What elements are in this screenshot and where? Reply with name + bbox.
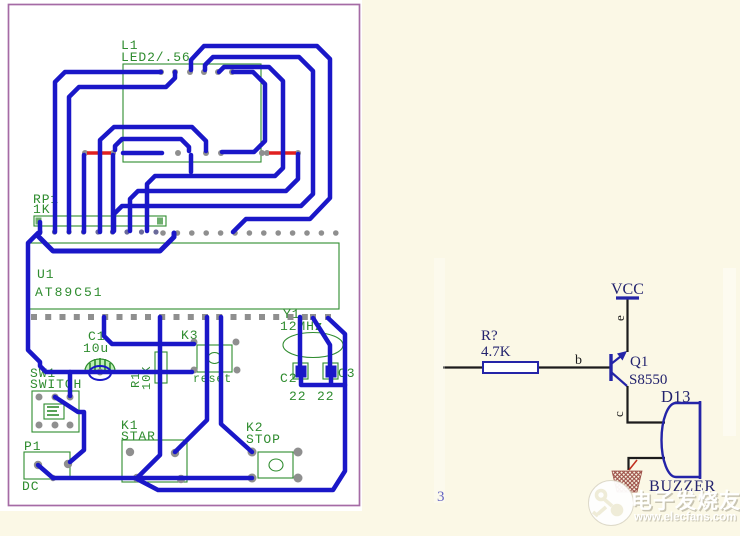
svg-text:c: c [611,411,626,417]
svg-text:STAR: STAR [121,429,156,444]
svg-text:电子发烧友: 电子发烧友 [631,489,740,513]
svg-text:STOP: STOP [246,432,281,447]
wire SW1 feed [68,372,73,396]
svg-text:www.elecfans.com: www.elecfans.com [633,512,736,524]
ground symbol (hatched earth) [612,460,642,492]
svg-text:AT89C51: AT89C51 [35,285,104,300]
jumper W2 [269,151,296,154]
svg-text:22: 22 [317,389,334,404]
svg-text:e: e [612,315,627,321]
svg-text:DC: DC [22,479,39,494]
pads SW1 [36,394,43,401]
wire U1 pin1 bus [38,233,174,251]
svg-text:U1: U1 [37,267,54,282]
svg-text:LED2/.56: LED2/.56 [121,50,191,65]
switch SW1 outline [32,391,79,432]
wire stub from pad [189,155,194,172]
wire LED pad stub [123,151,162,156]
buzzer D13 body [662,403,701,477]
svg-text:Q1: Q1 [630,354,648,370]
capacitor pads C2 C3 (blue squares) [296,366,337,378]
wire left long run to SW1 area [28,233,192,372]
svg-text:22: 22 [289,389,306,404]
wire fork right to K2 [221,317,252,452]
svg-text:b: b [575,353,582,368]
wire base net [443,366,610,368]
board edge (purple frame) [9,5,360,506]
wire collector down [628,386,666,423]
U1/RP1 top pad row [37,229,338,235]
wire small bridge [115,139,189,151]
wire bridge-left to RP1 [100,127,206,232]
svg-text:P1: P1 [24,439,41,454]
wire fork left to K1 [175,317,207,452]
LED display L1 outline [123,64,261,162]
red jumper wires [87,151,296,154]
faint band [723,268,736,436]
wire bottom bus P1-K2 [53,476,252,481]
copper traces [28,46,345,490]
pads K3 [191,339,198,346]
pad C1 [97,369,104,376]
wire C1 to K3 [104,317,194,344]
svg-text:reset: reset [193,373,232,386]
connector P1 outline [24,452,70,479]
capacitor C1 lower ellipse [89,366,111,380]
pads [31,69,339,483]
wire R1 vertical to K1 [137,317,160,478]
transistor Q1 body [609,354,612,381]
wire U1 pad to bottom-right bus [137,318,345,490]
U1 bottom pad row [31,314,331,320]
LED top pad row [158,69,235,75]
power VCC bar [616,296,639,299]
wire LED right mini loop [222,72,265,152]
pads P1 [34,461,42,469]
PCB white background [0,0,362,511]
wire RP1 pin1 stub [38,222,43,233]
svg-text:1K: 1K [33,202,50,217]
svg-text:VCC: VCC [611,281,644,298]
pads K2 [248,448,257,457]
resistor R1 outline [155,352,167,383]
push-button K3 outline [197,345,232,372]
silscreen text [22,38,355,494]
wire loop1 outer to K1 [191,46,330,232]
svg-text:S8550: S8550 [629,372,667,388]
wire loop3 to RP1 via fan [147,67,283,231]
wire C2-C3 link [301,374,345,385]
capacitor C1 body [85,358,115,371]
key K1 outline [122,440,187,482]
wire P1 diag [38,465,53,478]
svg-text:R?: R? [481,328,498,344]
wire buzzer bottom terminal [629,458,666,470]
svg-text:10K: 10K [140,366,154,390]
wire jumper2 pad to RP1 [111,155,116,232]
capacitor C3 outline [323,363,338,379]
wire second-left to LED pad2 [69,72,175,232]
wire top-left to LED pad1 [55,72,161,232]
wire emitter to VCC [626,298,628,352]
resistor R? [483,362,538,373]
svg-text:D13: D13 [661,387,691,406]
svg-text:SWITCH: SWITCH [30,377,82,392]
pads K1 [126,448,134,456]
key K2 outline [258,452,293,478]
svg-text:C2: C2 [280,371,297,386]
crystal Y1 outline [283,333,343,358]
svg-text:4.7K: 4.7K [481,344,511,360]
wire fan f3 [130,154,298,231]
jumper W1 [87,151,111,154]
LED bottom pad row [82,150,301,156]
watermark logo circle [589,481,634,526]
wire SW1 to P1 [55,397,84,462]
transistor Q1 collector [611,372,627,386]
wire Y1 right leg [313,318,330,366]
capacitor C2 outline [293,363,308,379]
resistor-network RP1 outline [34,216,166,226]
transistor Q1 emitter [611,353,625,364]
wire loop2 to RP1 via fan [114,57,313,231]
svg-text:10u: 10u [83,341,109,356]
MCU U1 outline [29,243,339,309]
wire Y1 left leg [298,317,303,366]
wire jumper pad to RP1 [82,155,87,232]
